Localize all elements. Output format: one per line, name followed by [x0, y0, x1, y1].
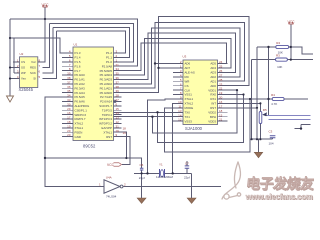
bus AD0 over-the-top: [114, 43, 227, 71]
svg-text:18: 18: [67, 120, 71, 124]
wire C7 top stub: [186, 161, 188, 166]
bus AD1 over-the-top: [114, 39, 232, 76]
wire oscillator feed: [45, 158, 142, 168]
svg-text:33: 33: [67, 98, 71, 102]
svg-text:89C52: 89C52: [83, 144, 96, 149]
wire net4 X25045 RES bus: [57, 31, 126, 53]
svg-text:19: 19: [219, 91, 223, 95]
svg-text:4.7K: 4.7K: [271, 102, 277, 106]
svg-text:11: 11: [178, 104, 181, 108]
svg-text:18: 18: [219, 109, 223, 113]
svg-text:INT: INT: [211, 102, 216, 106]
svg-text:RD/P3.7: RD/P3.7: [75, 117, 86, 121]
capacitor C7: [184, 162, 190, 180]
svg-text:WR/P3.6: WR/P3.6: [75, 113, 87, 117]
svg-text:XTAL1: XTAL1: [103, 130, 112, 134]
wire P3 left link: [45, 97, 104, 187]
wire X25045 CS row: [13, 61, 20, 63]
svg-text:WR: WR: [185, 79, 190, 83]
svg-text:ALE-AS: ALE-AS: [185, 71, 195, 75]
svg-text:P1.1: P1.1: [106, 56, 112, 60]
svg-text:29: 29: [67, 129, 71, 133]
svg-text:15: 15: [116, 107, 120, 111]
svg-text:AD4: AD4: [210, 66, 216, 70]
resistor R2: [276, 41, 289, 55]
svg-text:P1.4: P1.4: [75, 56, 81, 60]
svg-text:VCC: VCC: [107, 163, 115, 167]
svg-text:R4: R4: [271, 93, 275, 97]
svg-text:P2.0/A8: P2.0/A8: [102, 64, 113, 68]
svg-text:22: 22: [219, 87, 223, 91]
potentiometer R5: [259, 108, 267, 124]
svg-text:P0.1/A1: P0.1/A1: [75, 78, 86, 82]
svg-text:Vss: Vss: [21, 77, 26, 81]
svg-text:21: 21: [116, 63, 120, 67]
bus AD3 over-the-top: [114, 28, 241, 84]
svg-text:C7: C7: [185, 162, 189, 166]
ground arrow right area: [254, 152, 262, 157]
IC U3 SJA1000 pin stubs, pin names and pin numbers: [173, 60, 228, 123]
svg-text:SCK/P1.7: SCK/P1.7: [99, 104, 112, 108]
wire VCC port riser: [114, 137, 130, 165]
svg-text:AD6: AD6: [185, 62, 191, 66]
wire X25045 WP riser: [13, 38, 15, 73]
svg-text:U3: U3: [183, 55, 187, 59]
svg-text:P0.1/AD1: P0.1/AD1: [100, 86, 113, 90]
svg-text:P1.0: P1.0: [106, 60, 112, 64]
svg-text:10K: 10K: [277, 65, 282, 69]
svg-text:GND: GND: [75, 135, 81, 139]
svg-text:17: 17: [67, 116, 71, 120]
svg-text:104: 104: [269, 142, 274, 146]
svg-text:CS: CS: [21, 60, 25, 64]
svg-text:RX1: RX1: [210, 97, 216, 101]
svg-text:VSS3: VSS3: [185, 119, 193, 123]
svg-text:21: 21: [219, 118, 223, 122]
svg-text:C3: C3: [269, 130, 273, 134]
wire SJA RX0 link: [228, 107, 258, 109]
svg-text:39: 39: [116, 89, 120, 93]
svg-text:31: 31: [116, 124, 120, 128]
svg-text:34: 34: [67, 94, 71, 98]
svg-text:ALE/PROG: ALE/PROG: [75, 104, 91, 108]
wire pot bottom lead: [259, 124, 261, 140]
svg-text:EA/VPP: EA/VPP: [102, 126, 113, 130]
svg-text:16: 16: [67, 111, 71, 115]
svg-text:AD3: AD3: [210, 71, 216, 75]
svg-text:XTAL1: XTAL1: [75, 126, 84, 130]
svg-text:12: 12: [178, 118, 182, 122]
IC U2 X25045 pin names and pin numbers: [17, 59, 41, 81]
wire X25045 SO row: [10, 67, 20, 69]
svg-text:C6: C6: [140, 163, 144, 167]
svg-text:AD0: AD0: [210, 84, 216, 88]
svg-text:VDD3: VDD3: [208, 119, 216, 123]
svg-text:AD1: AD1: [210, 79, 216, 83]
svg-text:19: 19: [123, 131, 127, 135]
ground arrow under C6: [137, 198, 146, 203]
wire net1 top-left long: [10, 19, 138, 66]
svg-text:电子发烧友: 电子发烧友: [245, 175, 314, 193]
wire hook left: [295, 128, 302, 130]
wire net2 X25045 SI bus: [50, 24, 134, 62]
svg-text:P0.0/AD0: P0.0/AD0: [100, 91, 113, 95]
svg-text:22pf: 22pf: [139, 176, 145, 180]
svg-text:TX0: TX0: [185, 110, 191, 114]
wire CAN exit step: [291, 47, 313, 54]
svg-text:27: 27: [219, 73, 223, 77]
wire C3 rail: [252, 138, 273, 140]
wire left ground stem: [141, 170, 143, 198]
wire X25045 right riser 3: [43, 31, 57, 79]
wire hook drop: [300, 124, 302, 128]
svg-text:22pf: 22pf: [184, 176, 190, 180]
svg-text:SI: SI: [33, 77, 36, 81]
wire C3 stem: [272, 138, 274, 139]
svg-text:23: 23: [219, 82, 223, 86]
svg-text:VSS1: VSS1: [185, 93, 193, 97]
svg-text:SCK: SCK: [30, 71, 36, 75]
svg-text:P0.5/AD5: P0.5/AD5: [100, 69, 113, 73]
svg-text:P0.2/A2: P0.2/A2: [75, 82, 86, 86]
svg-text:INT1/P3.3: INT1/P3.3: [99, 117, 112, 121]
svg-text:29: 29: [67, 107, 71, 111]
wire SJA AD7 stub link: [159, 67, 184, 69]
bottom loop A from TX1: [152, 90, 237, 133]
svg-text:P0.6/A6: P0.6/A6: [75, 100, 86, 104]
svg-text:38: 38: [67, 76, 71, 80]
svg-text:37: 37: [116, 80, 120, 84]
wire TX1 line: [114, 116, 184, 118]
wire XTAL1 to crystal: [148, 99, 184, 173]
svg-text:10: 10: [178, 100, 182, 104]
svg-text:Y1: Y1: [159, 163, 163, 167]
svg-text:INT0/P3.2: INT0/P3.2: [99, 122, 112, 126]
svg-text:34: 34: [116, 67, 120, 71]
svg-text:SJA1000: SJA1000: [185, 126, 203, 131]
svg-text:20: 20: [67, 133, 71, 137]
wire R2 mid drop: [268, 47, 270, 116]
svg-text:CS: CS: [185, 84, 189, 88]
svg-text:15: 15: [219, 113, 223, 117]
wire X25045 Vss row: [10, 78, 20, 80]
bus AD2 over-the-top: [114, 33, 236, 79]
svg-text:26: 26: [219, 69, 223, 73]
inverter U4A 74LS04: [99, 175, 126, 198]
svg-text:WP: WP: [21, 71, 26, 75]
resistor R3: [276, 54, 288, 69]
wire right ground stem: [191, 173, 193, 198]
svg-text:30: 30: [67, 102, 71, 106]
wire X25045 right riser 2: [43, 28, 54, 74]
wire R4 row: [228, 98, 273, 100]
wire SJA AD6 stub link: [155, 63, 183, 65]
svg-text:VDD1: VDD1: [208, 88, 216, 92]
svg-text:RST: RST: [106, 135, 112, 139]
bus AD5 over-the-top: [114, 17, 250, 93]
wire inverter output: [124, 186, 222, 188]
svg-text:P1.5: P1.5: [75, 60, 81, 64]
svg-text:13: 13: [116, 116, 120, 120]
wire bottom ground stem: [258, 139, 260, 152]
wire R3 left drop: [251, 60, 253, 140]
svg-text:13: 13: [178, 109, 182, 113]
svg-text:P1.3: P1.3: [75, 51, 81, 55]
svg-text:U4A: U4A: [106, 175, 112, 179]
wire X25045 left ground drop: [9, 19, 11, 96]
IC U1 89C52 pin stubs, pin names and pin numbers: [62, 50, 122, 139]
wire VCC drop to X25045: [38, 7, 46, 62]
svg-text:AD2: AD2: [210, 75, 216, 79]
svg-text:27: 27: [116, 98, 120, 102]
svg-text:12: 12: [116, 120, 120, 124]
svg-text:25: 25: [219, 65, 223, 69]
wire X25045 right riser 1: [43, 24, 50, 68]
svg-text:www.elecfans.com: www.elecfans.com: [245, 193, 313, 202]
svg-text:U1: U1: [74, 43, 78, 47]
svg-text:19: 19: [116, 129, 120, 133]
svg-text:P0.3/AD3: P0.3/AD3: [100, 78, 113, 82]
svg-text:XTAL2: XTAL2: [75, 122, 84, 126]
IC U1 89C52: [73, 43, 114, 149]
svg-text:XTAL1: XTAL1: [185, 97, 194, 101]
wire crystal bottom rail: [134, 172, 192, 174]
svg-text:U2: U2: [20, 52, 24, 56]
IC U3 SJA1000: [183, 55, 218, 131]
svg-text:39: 39: [67, 72, 71, 76]
VCC port label bottom: [107, 163, 122, 167]
svg-text:BPH: BPH: [210, 115, 216, 119]
svg-text:R5: R5: [263, 108, 267, 112]
wire R4 right: [284, 98, 308, 100]
VCC symbol 1: [42, 3, 50, 7]
svg-text:P0.2/AD2: P0.2/AD2: [100, 82, 113, 86]
pin numbers U1 right bottom: [123, 127, 127, 135]
svg-text:28: 28: [219, 78, 223, 82]
svg-text:P0.3/A3: P0.3/A3: [75, 86, 86, 90]
wire R2 left drop: [256, 47, 258, 139]
svg-text:P1.7: P1.7: [75, 69, 81, 73]
svg-text:35: 35: [67, 89, 71, 93]
bus AD4 over-the-top: [114, 23, 245, 89]
watermark logo sketch: [222, 162, 241, 199]
svg-text:AD7: AD7: [185, 66, 191, 70]
svg-text:28: 28: [116, 94, 120, 98]
svg-text:36: 36: [116, 76, 120, 80]
inverted pin bubble on U1: [114, 100, 116, 102]
svg-text:20: 20: [219, 96, 223, 100]
svg-text:37: 37: [67, 80, 71, 84]
wire X25045 WP row: [14, 72, 20, 74]
wire TX0 line: [114, 111, 184, 113]
wire VCC2 stem: [290, 25, 292, 60]
CAN bus pair lines: [267, 116, 311, 120]
svg-text:R2: R2: [276, 41, 280, 45]
wire hook line: [301, 123, 311, 125]
svg-text:P0.4/A4: P0.4/A4: [75, 91, 86, 95]
svg-text:MODE: MODE: [185, 106, 194, 110]
ground arrow left (X25045): [7, 96, 14, 102]
svg-text:RD: RD: [185, 75, 189, 79]
wire XTAL2 to crystal: [173, 103, 183, 173]
svg-text:19: 19: [67, 124, 71, 128]
watermark text: [245, 175, 317, 203]
wire R2 row: [257, 46, 291, 48]
svg-text:RST: RST: [210, 106, 216, 110]
wire XTAL2 drop: [114, 132, 127, 158]
svg-text:74LS04: 74LS04: [106, 194, 117, 198]
IC U2 X25045: [19, 52, 38, 92]
capacitor C6: [139, 163, 145, 180]
svg-text:CLK: CLK: [185, 88, 191, 92]
wire C7 stem: [186, 168, 188, 173]
wire net3 X25045 SCK bus: [53, 28, 130, 58]
bottom loop C from MODE: [164, 99, 250, 152]
svg-text:RES: RES: [30, 66, 36, 70]
crystal Y1: [156, 163, 173, 180]
svg-text:P1.6: P1.6: [75, 64, 81, 68]
svg-text:P0.0/A0: P0.0/A0: [75, 73, 86, 77]
svg-text:RX0: RX0: [210, 93, 216, 97]
wire R3 row: [252, 59, 313, 61]
ground arrow under C7: [187, 198, 196, 203]
VCC symbol 2: [288, 20, 296, 24]
svg-text:35: 35: [116, 72, 120, 76]
svg-text:X25045: X25045: [19, 87, 34, 92]
svg-text:14: 14: [116, 111, 120, 115]
svg-text:36: 36: [67, 85, 71, 89]
svg-text:T1/P3.5: T1/P3.5: [102, 108, 113, 112]
bottom loop B from TX0: [158, 95, 244, 143]
svg-text:P1.2: P1.2: [106, 51, 112, 55]
svg-text:AD5: AD5: [210, 62, 216, 66]
svg-text:T0/P3.4: T0/P3.4: [102, 113, 113, 117]
svg-text:P0.4/AD4: P0.4/AD4: [100, 73, 113, 77]
svg-text:17: 17: [219, 104, 223, 108]
svg-text:VDD2: VDD2: [208, 110, 216, 114]
svg-text:Vcc: Vcc: [31, 60, 36, 64]
svg-text:XTAL2: XTAL2: [185, 102, 194, 106]
svg-text:11.0592MHZ: 11.0592MHZ: [156, 175, 173, 179]
svg-text:16: 16: [219, 100, 223, 104]
resistor R4: [271, 93, 284, 106]
svg-text:38: 38: [116, 85, 120, 89]
svg-text:P2.6/A14: P2.6/A14: [100, 100, 112, 104]
wire SJA RX1 link: [228, 103, 261, 111]
svg-text:CS0/P1.1: CS0/P1.1: [75, 108, 88, 112]
svg-text:24: 24: [219, 60, 223, 64]
capacitor C3: [269, 130, 276, 146]
svg-text:R3: R3: [276, 54, 280, 58]
svg-text:TX1: TX1: [185, 115, 191, 119]
wire P1 row0 link: [10, 38, 73, 53]
svg-text:14: 14: [178, 113, 182, 117]
svg-text:P0.5/A5: P0.5/A5: [75, 95, 86, 99]
svg-text:PSEN: PSEN: [75, 130, 83, 134]
svg-text:P2.7/A15: P2.7/A15: [100, 95, 112, 99]
